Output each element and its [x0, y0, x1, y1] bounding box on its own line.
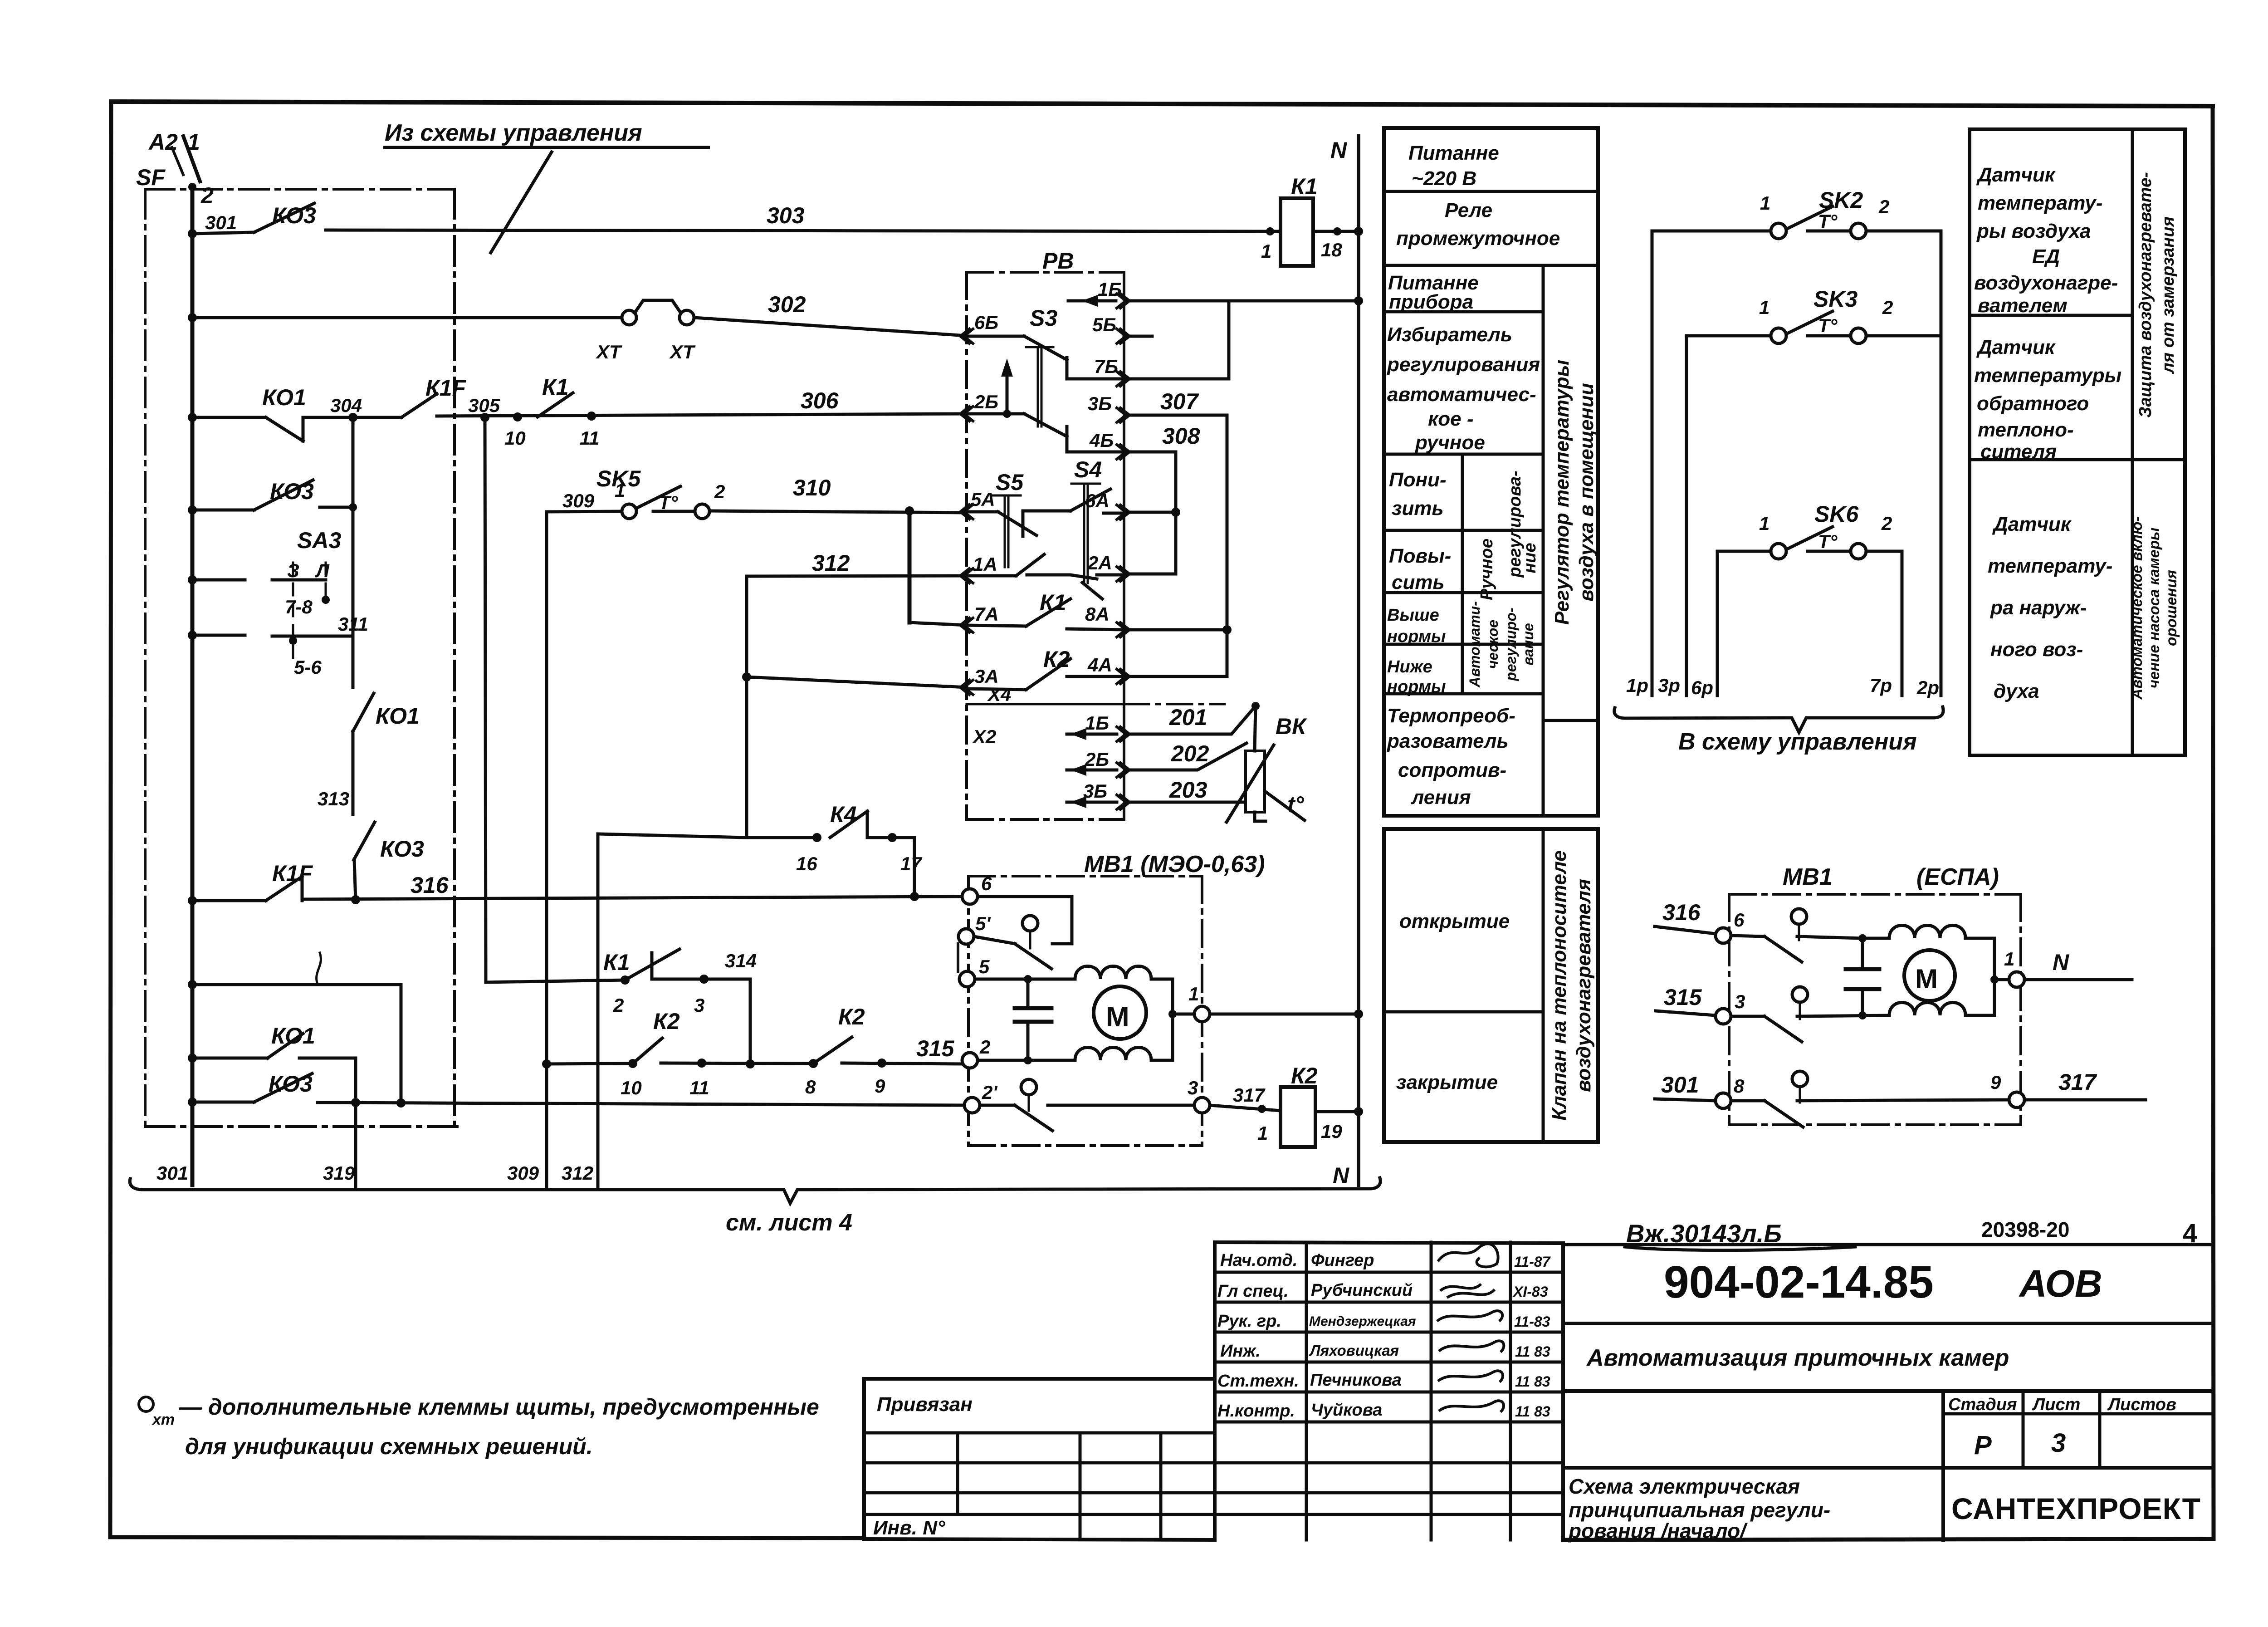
svg-text:S3: S3	[1030, 305, 1057, 331]
svg-text:4А: 4А	[1087, 654, 1112, 676]
svg-text:Рук. гр.: Рук. гр.	[1217, 1312, 1281, 1331]
contact K1 (2-3), wire 314	[486, 949, 750, 1064]
svg-text:КО1: КО1	[262, 385, 306, 410]
svg-text:сопротив-: сопротив-	[1398, 759, 1506, 781]
svg-text:2: 2	[1882, 297, 1893, 318]
contact KO1 and wire 319 drop	[192, 1034, 356, 1190]
svg-text:309: 309	[562, 490, 595, 511]
svg-text:вание: вание	[1520, 623, 1536, 665]
svg-text:5Б: 5Б	[1092, 314, 1116, 335]
motor M	[1094, 986, 1146, 1039]
sensor table	[1970, 129, 2185, 755]
svg-text:Т°: Т°	[1818, 211, 1838, 232]
svg-text:2': 2'	[982, 1082, 998, 1103]
X2 arrows 201,202,203	[1067, 728, 1117, 808]
svg-text:6Б: 6Б	[974, 312, 998, 333]
svg-text:нормы: нормы	[1387, 677, 1446, 696]
svg-text:рования /начало/: рования /начало/	[1568, 1519, 1748, 1543]
svg-text:SK2: SK2	[1819, 187, 1863, 213]
svg-text:КО1: КО1	[376, 703, 420, 729]
svg-text:3: 3	[2051, 1428, 2066, 1458]
regulator RV box	[967, 272, 1124, 819]
svg-text:301: 301	[156, 1162, 188, 1184]
svg-text:4: 4	[2183, 1219, 2197, 1248]
svg-text:N: N	[2053, 950, 2069, 975]
RV left terminals 6B,2B,5A,1A,7A,3A	[960, 329, 973, 695]
svg-text:2: 2	[1878, 196, 1889, 217]
switch S4	[1027, 484, 1124, 599]
svg-text:2А: 2А	[1087, 552, 1112, 573]
svg-text:К1: К1	[542, 374, 569, 400]
svg-text:SF: SF	[136, 165, 166, 190]
wire to 7A	[909, 622, 967, 625]
svg-text:Избиратель: Избиратель	[1387, 323, 1512, 346]
svg-text:1: 1	[187, 129, 200, 155]
svg-text:В схему управления: В схему управления	[1678, 729, 1917, 755]
svg-text:автоматичес-: автоматичес-	[1387, 383, 1536, 406]
brace see sheet 4	[130, 1178, 1380, 1203]
svg-text:8: 8	[805, 1076, 816, 1098]
svg-text:Р: Р	[1974, 1431, 1992, 1460]
svg-text:Мендзержецкая: Мендзержецкая	[1309, 1314, 1416, 1329]
svg-text:3: 3	[1188, 1077, 1198, 1098]
svg-text:К2: К2	[838, 1004, 865, 1029]
wire from bus to bottom row	[192, 953, 401, 1103]
svg-text:прибора: прибора	[1389, 291, 1473, 313]
svg-text:К1F: К1F	[272, 861, 313, 886]
wire 316 with contact K1F	[192, 877, 963, 901]
svg-text:1: 1	[1759, 297, 1769, 318]
svg-text:202: 202	[1171, 741, 1209, 766]
privyazan box	[864, 1379, 1215, 1540]
svg-text:18: 18	[1321, 239, 1342, 260]
svg-text:Т°: Т°	[1818, 531, 1838, 552]
svg-text:Л: Л	[315, 560, 330, 581]
svg-text:9: 9	[875, 1075, 885, 1097]
svg-text:1Б: 1Б	[1098, 279, 1122, 300]
svg-text:ного воз-: ного воз-	[1990, 638, 2083, 661]
svg-text:SK3: SK3	[1813, 286, 1857, 312]
svg-text:Автомати-: Автомати-	[1466, 601, 1483, 688]
svg-text:Из схемы управления: Из схемы управления	[385, 120, 642, 146]
svg-text:Чуйкова: Чуйкова	[1311, 1401, 1382, 1420]
svg-text:К1: К1	[1040, 590, 1066, 615]
svg-text:317: 317	[1233, 1084, 1266, 1106]
svg-text:S4: S4	[1074, 457, 1102, 482]
svg-text:5': 5'	[975, 913, 991, 934]
vertical 313 chain: contacts KO1, KO3	[353, 417, 375, 901]
svg-text:Питанне: Питанне	[1408, 142, 1499, 164]
svg-text:ля от замерзания: ля от замерзания	[2159, 216, 2178, 374]
wire 301/303 with contact KO3	[192, 203, 1281, 234]
svg-text:t°: t°	[1287, 792, 1305, 817]
svg-text:1: 1	[1261, 240, 1271, 262]
svg-text:Датчик: Датчик	[1976, 336, 2056, 358]
svg-text:сителя: сителя	[1980, 441, 2057, 463]
motor winding bottom	[1075, 1048, 1151, 1061]
svg-text:К2: К2	[1291, 1063, 1318, 1088]
terminal 8 (ESPA)	[1716, 1093, 1731, 1108]
svg-text:Печникова: Печникова	[1310, 1371, 1402, 1390]
main stamp	[1563, 1245, 2214, 1540]
svg-text:3: 3	[1735, 991, 1745, 1012]
svg-text:11-83: 11-83	[1514, 1313, 1550, 1330]
stub 5B	[1124, 335, 1152, 338]
svg-text:кое -: кое -	[1428, 408, 1474, 430]
svg-text:Н.контр.: Н.контр.	[1217, 1402, 1295, 1421]
contact K1 (10-11)	[538, 393, 573, 417]
svg-text:SK6: SK6	[1814, 501, 1859, 527]
svg-text:7Б: 7Б	[1094, 356, 1118, 377]
svg-text:воздухонагре-: воздухонагре-	[1974, 272, 2118, 294]
svg-text:Инж.: Инж.	[1220, 1342, 1261, 1361]
svg-text:АОВ: АОВ	[2019, 1262, 2102, 1305]
svg-text:ры воздуха: ры воздуха	[1976, 220, 2091, 242]
terminal 3	[1194, 1098, 1210, 1113]
svg-text:Стадия: Стадия	[1948, 1395, 2017, 1414]
svg-text:Х4: Х4	[987, 684, 1011, 705]
svg-text:Нач.отд.: Нач.отд.	[1220, 1251, 1297, 1270]
svg-text:нормы: нормы	[1387, 627, 1446, 646]
svg-text:Вж.30143л.Б: Вж.30143л.Б	[1626, 1219, 1782, 1248]
svg-text:203: 203	[1169, 777, 1207, 803]
svg-text:М: М	[1915, 964, 1938, 994]
top winding and motor	[1862, 937, 1889, 940]
title block text	[873, 1251, 1551, 1539]
wire 317	[1210, 1105, 1281, 1111]
svg-text:10: 10	[504, 427, 526, 449]
svg-text:4Б: 4Б	[1089, 430, 1114, 451]
svg-text:5А: 5А	[971, 489, 995, 510]
svg-text:Т°: Т°	[659, 492, 679, 513]
wire 309/310 with thermostat SK5	[547, 486, 967, 519]
svg-text:10: 10	[621, 1077, 642, 1098]
signatures squiggles	[1437, 1244, 1504, 1412]
svg-text:307: 307	[1160, 389, 1199, 414]
svg-text:3Б: 3Б	[1083, 780, 1107, 802]
svg-text:201: 201	[1169, 705, 1207, 730]
sheet frame	[111, 102, 2213, 106]
svg-text:11-87: 11-87	[1514, 1254, 1551, 1270]
terminal 1 (ESPA) to N	[2009, 972, 2024, 987]
svg-text:ческое: ческое	[1485, 620, 1501, 669]
svg-text:КО3: КО3	[270, 479, 314, 504]
svg-text:Повы-: Повы-	[1389, 545, 1451, 567]
arrow up from 2B	[1006, 368, 1009, 414]
svg-text:305: 305	[468, 395, 500, 416]
svg-text:КО1: КО1	[271, 1023, 315, 1049]
svg-text:принципиальная регули-: принципиальная регули-	[1569, 1498, 1830, 1522]
svg-text:чение насоса камеры: чение насоса камеры	[2146, 528, 2162, 688]
svg-text:КО3: КО3	[380, 836, 424, 862]
wire with contact KO3 (row 1124)	[192, 480, 353, 510]
svg-text:2: 2	[200, 183, 214, 208]
wire 310 to 7A drop	[908, 511, 912, 622]
svg-text:1: 1	[615, 480, 625, 501]
svg-text:К4: К4	[830, 802, 857, 827]
contact K2 (3A-4A)	[967, 659, 1124, 690]
X4/X2 divider	[967, 703, 1124, 706]
svg-text:ХI-83: ХI-83	[1512, 1284, 1548, 1300]
svg-text:5: 5	[979, 956, 990, 977]
svg-text:Клапан на теплоносителе: Клапан на теплоносителе	[1548, 850, 1570, 1120]
svg-text:М: М	[1106, 1001, 1129, 1033]
svg-text:Схема электрическая: Схема электрическая	[1569, 1475, 1800, 1498]
annotation table lower	[1384, 829, 1598, 1142]
svg-text:S5: S5	[996, 470, 1024, 495]
svg-text:Инв. N°: Инв. N°	[873, 1517, 945, 1539]
svg-text:904-02-14.85: 904-02-14.85	[1664, 1257, 1934, 1308]
svg-text:воздуха в помещении: воздуха в помещении	[1575, 383, 1598, 602]
terminal 2	[962, 1053, 978, 1068]
svg-text:температу-: температу-	[1988, 555, 2112, 577]
svg-text:Датчик: Датчик	[1976, 164, 2056, 186]
svg-text:5-6: 5-6	[294, 657, 322, 678]
svg-text:РВ: РВ	[1042, 248, 1074, 274]
svg-text:А2: А2	[148, 129, 178, 155]
svg-text:Датчик: Датчик	[1992, 513, 2072, 535]
wire 3p	[1685, 336, 1688, 696]
wire: N bus	[1357, 136, 1360, 1185]
svg-text:313: 313	[318, 788, 349, 809]
svg-text:открытие: открытие	[1399, 910, 1510, 932]
svg-text:19: 19	[1321, 1121, 1342, 1142]
svg-text:8А: 8А	[1085, 603, 1110, 625]
RV labels	[971, 137, 1349, 1188]
contact K1 (7A-8A)	[967, 599, 1124, 630]
svg-text:см. лист 4: см. лист 4	[726, 1210, 852, 1236]
svg-text:К2: К2	[653, 1009, 680, 1034]
svg-text:3Б: 3Б	[1088, 393, 1112, 414]
svg-text:9: 9	[1990, 1072, 2001, 1093]
wire 309 drop	[545, 512, 548, 1190]
svg-text:ЕД: ЕД	[2032, 245, 2060, 268]
svg-text:Ручное: Ручное	[1477, 539, 1496, 600]
svg-text:(ЕСПА): (ЕСПА)	[1916, 864, 1999, 890]
contact K4 (16-17) and wire 312 drop	[598, 811, 914, 1190]
underline + leader for iz shemy	[383, 147, 710, 254]
svg-text:САНТЕХПРОЕКТ: САНТЕХПРОЕКТ	[1951, 1492, 2201, 1525]
svg-text:КО3: КО3	[269, 1071, 313, 1097]
svg-text:3р: 3р	[1658, 675, 1680, 696]
terminal 5'	[958, 929, 974, 944]
svg-text:ления: ления	[1411, 786, 1471, 809]
svg-text:К2: К2	[1043, 647, 1070, 672]
wire 304/305/306 with contacts KO1, K1F	[192, 394, 967, 441]
svg-text:закрытие: закрытие	[1396, 1071, 1498, 1093]
svg-text:КО3: КО3	[272, 203, 316, 228]
wire 6p	[1716, 551, 1719, 696]
svg-text:2: 2	[714, 481, 725, 502]
svg-text:11: 11	[689, 1077, 709, 1098]
svg-text:N: N	[1330, 137, 1347, 163]
wire 315 stub	[1656, 1011, 1716, 1015]
svg-text:316: 316	[411, 872, 449, 898]
svg-text:315: 315	[1664, 985, 1702, 1010]
wire 305 drop	[485, 417, 486, 982]
svg-text:2: 2	[1881, 513, 1892, 534]
svg-text:Фингер: Фингер	[1311, 1251, 1374, 1270]
svg-text:1: 1	[1760, 192, 1770, 214]
svg-text:ХТ: ХТ	[669, 341, 696, 363]
node 2	[188, 183, 196, 191]
svg-text:N: N	[1333, 1163, 1349, 1188]
capacitor	[1026, 979, 1030, 1060]
svg-text:17: 17	[900, 853, 922, 874]
svg-text:2: 2	[613, 995, 624, 1016]
thermostat SK6	[1717, 527, 1902, 559]
svg-text:Т°: Т°	[1818, 315, 1838, 336]
svg-text:1: 1	[1257, 1122, 1268, 1144]
svg-text:314: 314	[725, 950, 757, 971]
breaker SF (A2)	[172, 136, 200, 181]
svg-text:Рубчинский: Рубчинский	[1311, 1281, 1413, 1300]
motor winding top	[1075, 966, 1151, 980]
node 1 of K1 coil	[1266, 227, 1274, 235]
svg-text:316: 316	[1662, 900, 1701, 925]
svg-text:К1: К1	[1291, 174, 1318, 199]
svg-text:Лист: Лист	[2032, 1395, 2080, 1414]
svg-text:7-8: 7-8	[285, 596, 313, 617]
terminal 5	[959, 971, 975, 987]
lamp (ESPA)	[1791, 909, 1807, 924]
terminal 9 (ESPA) wire 317	[2009, 1092, 2024, 1108]
wire 1p	[1651, 231, 1654, 696]
svg-text:— дополнительные клеммы щиты,: — дополнительные клеммы щиты, предусмотр…	[179, 1394, 819, 1420]
svg-text:Ниже: Ниже	[1387, 657, 1432, 676]
switch S5	[967, 495, 1070, 576]
wires 307/308 right of RV	[1129, 301, 1359, 676]
underline vzh	[1625, 1247, 1855, 1250]
svg-text:11 83: 11 83	[1515, 1403, 1550, 1420]
svg-text:Автоматическое вклю-: Автоматическое вклю-	[2128, 517, 2145, 700]
panel boundary (dash-dot)	[145, 189, 459, 1127]
wire: phase bus	[191, 187, 195, 1185]
relay coil K2	[1281, 1087, 1315, 1147]
terminal 6 (ESPA)	[1716, 928, 1731, 943]
lamp	[1022, 916, 1038, 931]
wire 315 with contacts K2 (10-11) and K2 (8-9)	[547, 1037, 963, 1064]
svg-text:З: З	[287, 560, 299, 581]
thermostat SK2	[1652, 206, 1941, 239]
thermostat SK3	[1686, 311, 1941, 343]
svg-text:2Б: 2Б	[1085, 749, 1109, 770]
svg-text:7р: 7р	[1870, 675, 1892, 696]
annotation table upper	[1384, 128, 1598, 816]
svg-text:1: 1	[2004, 948, 2014, 970]
svg-text:1А: 1А	[973, 554, 997, 575]
motor M (ESPA)	[1904, 950, 1955, 1001]
svg-text:315: 315	[916, 1036, 955, 1061]
svg-text:1р: 1р	[1626, 675, 1648, 696]
svg-text:зить: зить	[1392, 497, 1444, 519]
svg-text:301: 301	[1661, 1072, 1699, 1098]
svg-text:теплоно-: теплоно-	[1978, 419, 2074, 441]
svg-text:воздухонагревателя: воздухонагревателя	[1573, 879, 1595, 1092]
svg-text:для унификации схемных решен: для унификации схемных решений.	[185, 1434, 593, 1459]
svg-text:К1: К1	[603, 950, 630, 975]
svg-text:Защита воздухонагревате-: Защита воздухонагревате-	[2136, 172, 2155, 418]
svg-text:ВК: ВК	[1276, 714, 1307, 739]
svg-text:304: 304	[330, 395, 362, 416]
wire 312	[747, 576, 967, 838]
svg-text:16: 16	[796, 853, 817, 874]
svg-text:20398-20: 20398-20	[1981, 1218, 2069, 1241]
wire to 3A	[747, 677, 967, 687]
actuator MB1 (ESPA) box	[1729, 894, 2021, 1125]
svg-text:Автоматизация приточных каме: Автоматизация приточных камер	[1586, 1345, 2009, 1371]
svg-text:Термопреоб-: Термопреоб-	[1387, 705, 1515, 727]
svg-text:8: 8	[1734, 1075, 1745, 1097]
terminal 2'	[964, 1098, 980, 1113]
svg-text:Привязан: Привязан	[877, 1393, 973, 1416]
contact KO3 and long wire to terminal 2'	[192, 1073, 965, 1105]
svg-text:Пони-: Пони-	[1389, 469, 1447, 491]
wire 7p	[1901, 551, 1904, 696]
junction dots on bus	[188, 229, 197, 1107]
svg-text:обратного: обратного	[1977, 392, 2089, 415]
terminal 1	[1194, 1006, 1210, 1022]
svg-text:хт: хт	[152, 1411, 175, 1428]
selector S3	[967, 336, 1124, 452]
svg-text:311: 311	[338, 613, 368, 635]
svg-text:ХТ: ХТ	[596, 341, 622, 363]
svg-text:Реле: Реле	[1445, 199, 1492, 221]
svg-text:Листов: Листов	[2107, 1395, 2176, 1414]
svg-text:306: 306	[801, 388, 839, 413]
svg-text:Регулятор температуры: Регулятор температуры	[1551, 360, 1573, 625]
RV right terminals 1B,5B,7B,3B,4B,6A,2A,8A,4A,1B,2B,3B	[1117, 294, 1129, 809]
wire 316 stub	[1655, 926, 1716, 934]
svg-text:7А: 7А	[974, 603, 999, 625]
wire 302 with XT-XT terminals	[192, 300, 967, 336]
svg-text:ние: ние	[1520, 543, 1540, 573]
svg-text:Ляховицкая: Ляховицкая	[1309, 1342, 1399, 1359]
svg-text:духа: духа	[1994, 680, 2039, 702]
svg-text:312: 312	[562, 1162, 593, 1184]
svg-text:301: 301	[205, 212, 237, 233]
svg-text:К1F: К1F	[425, 375, 467, 401]
wire 2p	[1940, 231, 1943, 696]
svg-text:температуры: температуры	[1974, 364, 2121, 387]
relay coil K1	[1281, 198, 1359, 266]
svg-text:орошения: орошения	[2163, 570, 2180, 646]
svg-text:SA3: SA3	[297, 528, 341, 553]
svg-text:2: 2	[979, 1036, 990, 1058]
svg-text:Выше: Выше	[1387, 606, 1439, 625]
svg-text:ручное: ручное	[1415, 431, 1485, 454]
svg-text:Х2: Х2	[972, 726, 996, 747]
svg-text:регулирования: регулирования	[1387, 353, 1540, 376]
svg-text:319: 319	[323, 1162, 355, 1184]
svg-text:309: 309	[507, 1162, 539, 1184]
svg-text:6р: 6р	[1691, 677, 1713, 698]
actuator MB1 (MEO-0,63) box	[968, 876, 1202, 1146]
svg-text:Гл спец.: Гл спец.	[1217, 1282, 1289, 1301]
svg-text:2р: 2р	[1916, 677, 1939, 698]
brace to control circuit	[1614, 707, 1943, 732]
svg-text:303: 303	[767, 203, 805, 228]
svg-text:промежуточное: промежуточное	[1396, 227, 1560, 250]
svg-text:разователь: разователь	[1387, 730, 1509, 752]
resistance thermometer BK	[1129, 706, 1305, 822]
svg-text:308: 308	[1162, 423, 1200, 449]
svg-text:302: 302	[768, 292, 806, 317]
svg-text:11: 11	[580, 427, 600, 449]
terminal 3 (ESPA)	[1716, 1009, 1731, 1024]
svg-text:2Б: 2Б	[974, 391, 998, 412]
svg-text:Ст.техн.: Ст.техн.	[1217, 1372, 1299, 1391]
